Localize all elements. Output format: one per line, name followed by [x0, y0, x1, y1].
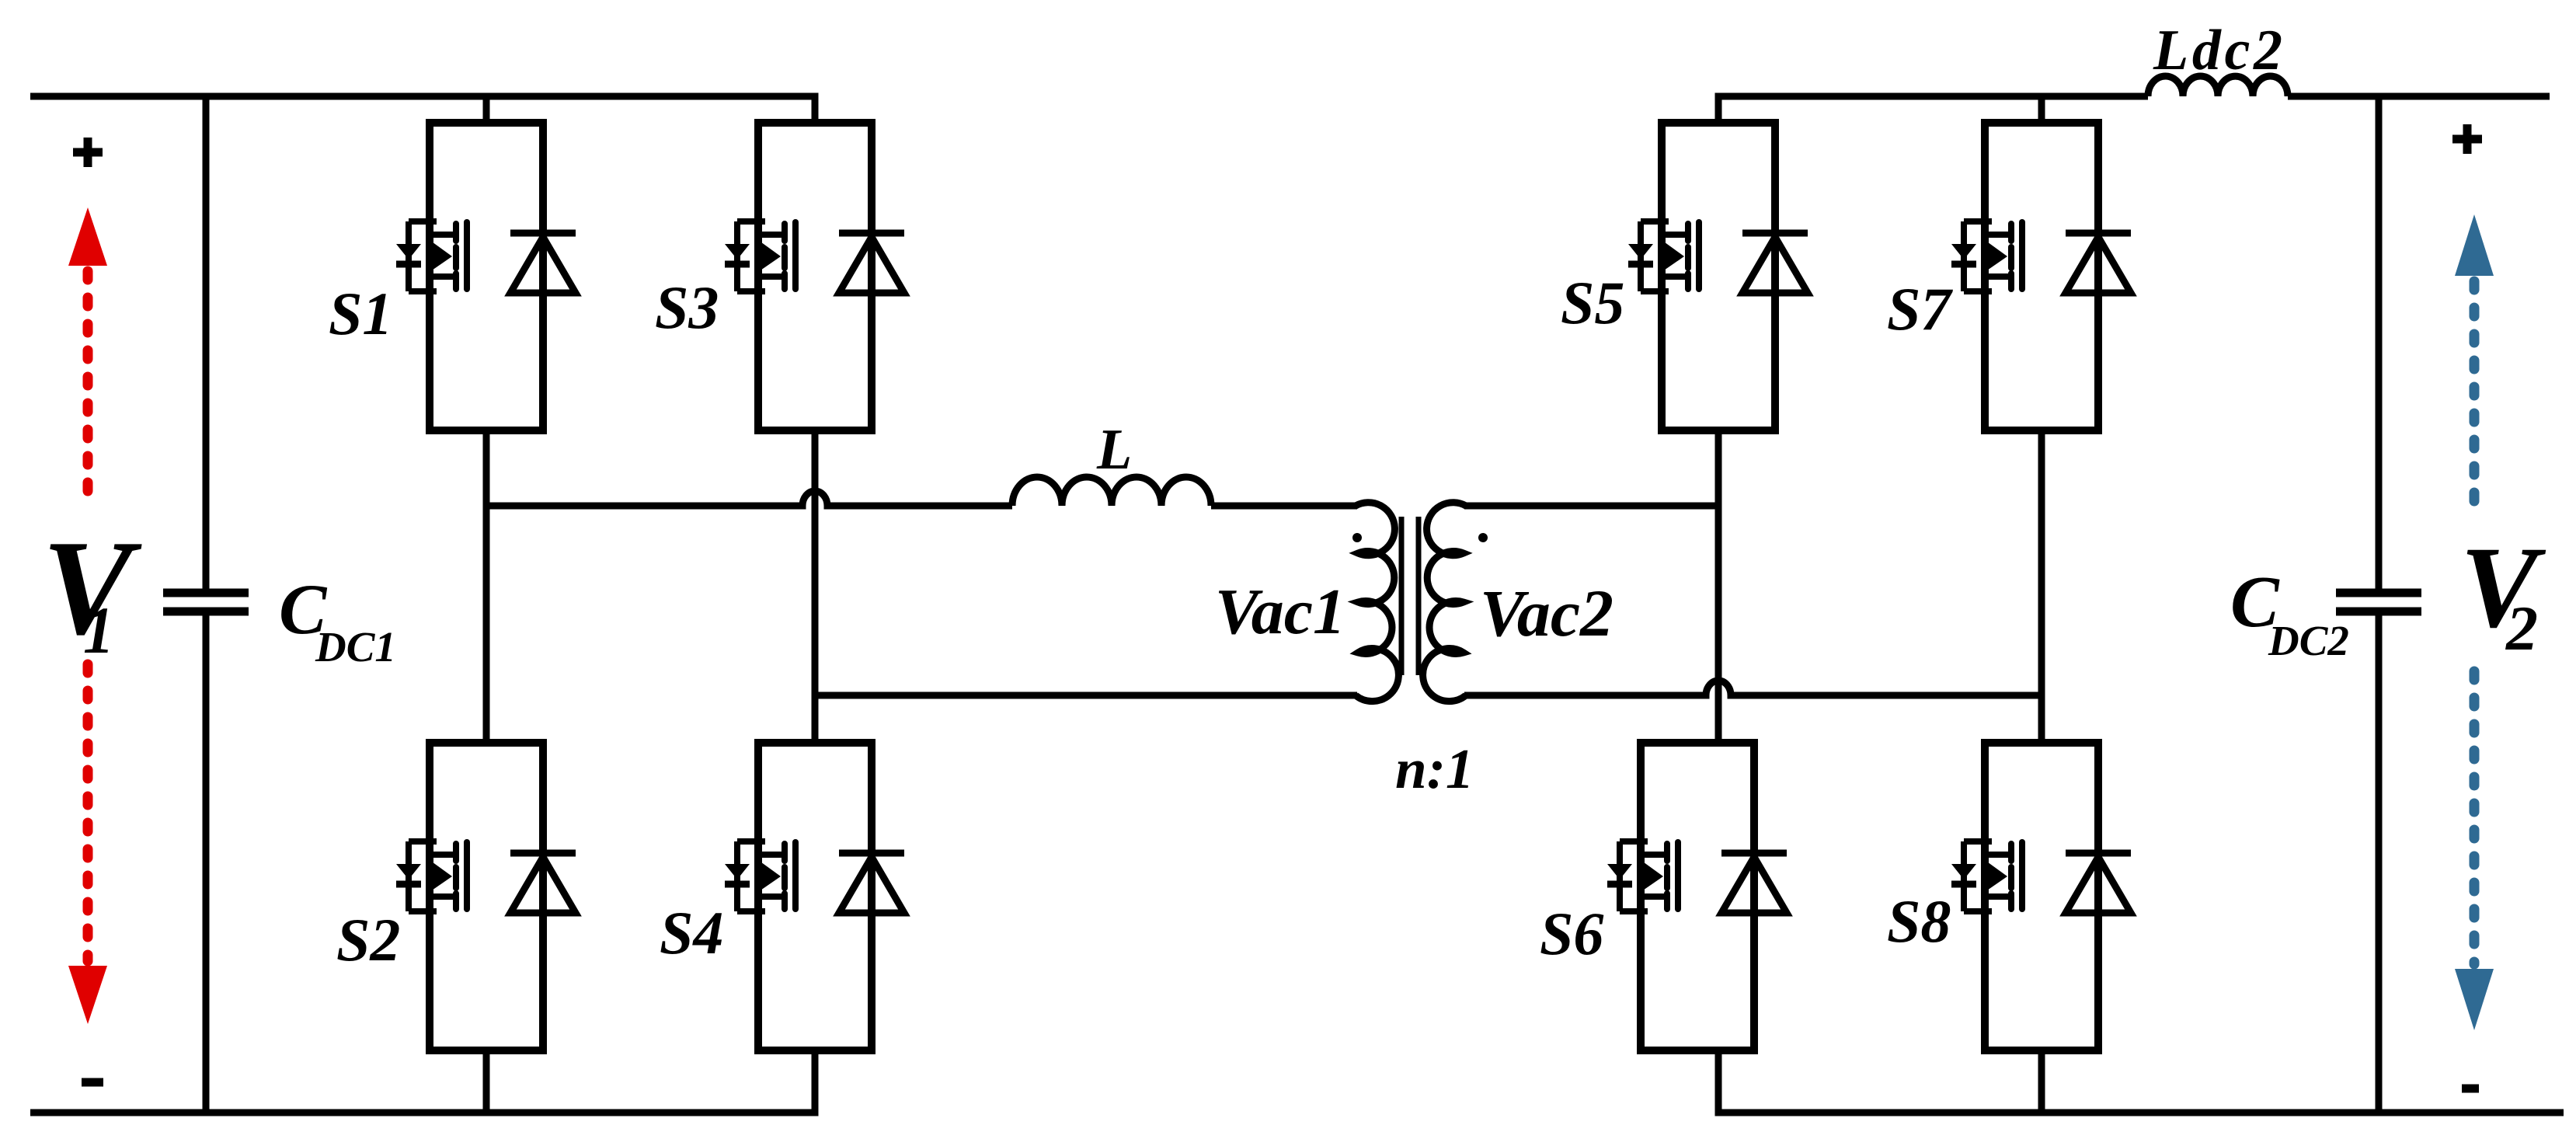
transistor S6	[1607, 743, 1787, 1050]
transformer core	[1401, 517, 1419, 675]
svg-text:S4: S4	[660, 899, 723, 967]
wire left rail lower	[203, 615, 210, 1113]
wire S2 source stub	[483, 1050, 490, 1113]
svg-text:L: L	[1096, 418, 1132, 482]
wire S7 drain stub	[2038, 96, 2045, 123]
wire top bus left	[30, 96, 815, 123]
svg-text:DC2: DC2	[2268, 617, 2349, 664]
minus sign left	[82, 1078, 103, 1087]
svg-text:S7: S7	[1887, 275, 1953, 343]
svg-text:DC1: DC1	[315, 623, 396, 671]
wire bottom bus left	[30, 1050, 815, 1113]
wire inductor to transformer	[1211, 503, 1357, 510]
transistor S1	[396, 123, 576, 430]
svg-text:2: 2	[2505, 593, 2538, 664]
arrow V1 red dashed	[68, 207, 107, 1024]
wire leg1 midpoint vertical	[483, 430, 490, 743]
transistor S5	[1628, 123, 1808, 430]
svg-text:S3: S3	[655, 273, 719, 341]
plus sign right	[2452, 124, 2482, 154]
plus sign left	[73, 138, 103, 167]
svg-text:S2: S2	[336, 906, 400, 974]
wire right rail upper	[2376, 96, 2383, 589]
wire top bus right with corner	[1718, 96, 2148, 123]
minus sign right	[2462, 1085, 2479, 1093]
wire S1 drain stub	[483, 96, 490, 123]
transformer primary winding	[1356, 503, 1398, 702]
transistor S3	[725, 123, 904, 430]
transistor S8	[1951, 743, 2131, 1050]
svg-text:S8: S8	[1887, 887, 1951, 955]
transformer dot secondary	[1478, 533, 1488, 542]
svg-text:n:1: n:1	[1395, 737, 1474, 800]
transformer secondary winding	[1423, 503, 1466, 702]
wire right rail lower	[2376, 615, 2383, 1113]
wire leg3 midpoint vertical	[1715, 430, 1722, 743]
wire left rail upper	[203, 96, 210, 589]
wire secondary top to leg3	[1464, 503, 1718, 510]
svg-text:Vac2: Vac2	[1480, 576, 1613, 650]
wire bottom bus right	[1718, 1050, 2564, 1113]
svg-text:S6: S6	[1540, 900, 1603, 967]
wire leg2 midpoint vertical	[812, 430, 819, 743]
transistor S2	[396, 743, 576, 1050]
svg-text:Ldc2: Ldc2	[2153, 19, 2282, 82]
inductor L	[1012, 477, 1211, 506]
svg-text:S5: S5	[1561, 269, 1624, 336]
capacitor CDC1	[163, 593, 249, 611]
transistor S7	[1951, 123, 2131, 430]
wire top bus right end	[2288, 93, 2550, 100]
wire node B to transformer bottom	[815, 692, 1357, 699]
transformer dot primary	[1352, 533, 1362, 542]
wire node A to inductor with hopover	[486, 491, 1012, 506]
wire S8 source stub	[2038, 1050, 2045, 1113]
wire secondary bottom to leg4 with hopover	[1464, 681, 2042, 695]
inductor Ldc2	[2148, 76, 2288, 96]
svg-text:1: 1	[83, 593, 114, 667]
arrow V2 blue dashed	[2455, 214, 2494, 1030]
capacitor CDC2	[2336, 593, 2421, 611]
svg-text:S1: S1	[329, 280, 392, 347]
transistor S4	[725, 743, 904, 1050]
svg-text:Vac1: Vac1	[1215, 576, 1345, 648]
wire leg4 midpoint vertical	[2038, 430, 2045, 743]
